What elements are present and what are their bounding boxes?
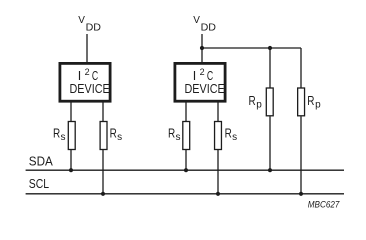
svg-text:SDA: SDA [29,154,54,168]
wire VDD rail corner to resistor Rp2 [300,48,302,88]
svg-text:s: s [176,132,181,143]
label Rs (Rs2) [110,126,123,144]
resistor Rp2 body [298,88,305,116]
svg-text:s: s [61,132,66,143]
svg-text:p: p [315,100,321,111]
I2C device U1 box [60,63,110,101]
label Rs (Rs1) [53,126,66,144]
junction Rp1 branch node [268,46,272,50]
wire VDD rail to resistor Rp1 [269,48,271,88]
wire SCL bus line [26,193,344,195]
I2C device U2 box [175,63,225,101]
svg-text:p: p [256,100,262,111]
power label VDD (device 1) [78,15,101,33]
svg-text:R: R [53,126,60,141]
wire VDD2 to device 2 [201,34,203,62]
resistor Rp1 body [266,88,273,116]
svg-text:R: R [110,126,117,141]
wire SDA bus line [26,169,344,171]
svg-text:2: 2 [200,67,205,77]
resistor Rs1 body [68,122,75,150]
junction Rs3-SDA [184,168,188,172]
svg-text:V: V [193,15,200,26]
svg-text:R: R [225,126,232,141]
resistor Rs3 body [183,122,190,150]
svg-text:s: s [117,132,122,143]
svg-text:SCL: SCL [29,177,49,191]
wire VDD1 to device 1 [86,34,88,62]
svg-text:R: R [168,126,175,141]
wire Rs3 to SDA bus [185,150,187,170]
label Rp (Rp1) [249,93,263,111]
junction Rs2-SCL [101,192,105,196]
label Rs (Rs3) [168,126,181,144]
svg-text:V: V [78,15,85,26]
wire Rs2 to SCL bus [102,150,104,194]
svg-text:DEVICE: DEVICE [185,81,225,96]
svg-text:2: 2 [85,67,90,77]
wire Rp1 to SDA bus [269,117,271,171]
resistor Rs4 body [215,122,222,150]
label I2C (device 1) [78,67,99,83]
label Rp (Rp2) [307,93,321,111]
svg-text:DD: DD [86,21,102,33]
svg-text:R: R [249,93,256,108]
wire Rp2 to SCL bus [300,117,302,194]
wire device1 pin SCL to resistor Rs2 [102,103,104,122]
junction VDD2 branch node [200,46,204,50]
junction Rs4-SCL [216,192,220,196]
power label VDD (device 2) [193,15,216,33]
junction Rp1-SDA [268,168,272,172]
wire Rs4 to SCL bus [217,150,219,194]
svg-text:MBC627: MBC627 [308,200,340,211]
label Rs (Rs4) [225,126,238,144]
junction Rp2-SCL [299,192,303,196]
svg-text:R: R [307,93,314,108]
svg-text:DEVICE: DEVICE [70,81,110,96]
wire device1 pin SDA to resistor Rs1 [70,103,72,122]
resistor Rs2 body [100,122,107,150]
wire device2 pin SCL to resistor Rs4 [217,103,219,122]
wire Rs1 to SDA bus [70,150,72,170]
wire device2 pin SDA to resistor Rs3 [185,103,187,122]
svg-text:s: s [232,132,237,143]
svg-text:DD: DD [201,21,217,33]
label I2C (device 2) [193,67,214,83]
junction Rs1-SDA [69,168,73,172]
wire VDD rail to pull-ups [202,47,301,49]
